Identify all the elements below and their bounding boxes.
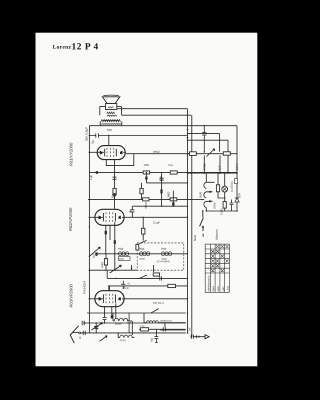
svg-text:0,1µF: 0,1µF — [153, 221, 161, 225]
svg-text:PHS43Z4: PHS43Z4 — [82, 281, 86, 294]
wire lamp leads — [218, 173, 225, 201]
wire grid2 rail y199 — [88, 198, 204, 200]
switch netz terminal circle — [202, 226, 204, 228]
trimmer arrow tube3 a — [91, 323, 102, 330]
terminal box right of lamp — [235, 179, 238, 184]
trimmer arrow 1 — [110, 265, 122, 273]
choke UrW winding — [204, 182, 206, 207]
wire rail y329 — [139, 328, 186, 330]
capacitor blob above tube2 — [113, 193, 115, 196]
wire mid rail y172 — [89, 171, 237, 173]
wire rail y206 — [132, 205, 187, 207]
wire tube Ro2 left lead — [89, 216, 103, 218]
svg-text:8µ: 8µ — [111, 194, 115, 198]
wire tube Ro3 left lead — [89, 298, 103, 300]
svg-text:1MΩ: 1MΩ — [144, 164, 150, 167]
wire x173 stub — [172, 199, 174, 206]
capacitor x96 bars — [94, 326, 98, 328]
svg-text:110Ω: 110Ω — [219, 208, 223, 215]
coil 0000 on rail — [146, 321, 158, 323]
resistor bottom a — [141, 328, 149, 331]
netz junction dot — [202, 210, 204, 212]
wire tube Ro2 pins — [106, 222, 115, 270]
svg-text:117V: 117V — [235, 163, 239, 170]
tube Ro3 cathode — [102, 294, 104, 302]
svg-text:0,1µ: 0,1µ — [140, 325, 145, 328]
switch band — [140, 275, 151, 278]
wire IF secondary stubs — [132, 265, 154, 272]
tube Ro1 electrode blobs — [100, 151, 101, 154]
speaker cone flange — [103, 94, 118, 97]
tube Ro3 electrode blobs — [99, 297, 100, 300]
capacitor 1uF blob on rail — [96, 171, 98, 174]
speaker bracket right — [117, 106, 122, 115]
svg-text:A5-0: A5-0 — [122, 286, 129, 290]
svg-text:4µF: 4µF — [218, 165, 222, 170]
svg-text:0,1µ: 0,1µ — [168, 164, 174, 167]
capacitor pin3 bars — [103, 317, 107, 319]
wire rail y330 — [160, 329, 186, 331]
capacitor blob osc — [95, 252, 97, 255]
svg-text:1µF: 1µF — [89, 175, 93, 180]
resistor lamp series — [216, 185, 219, 192]
resistor 50k below tube1 — [113, 188, 116, 195]
table X marks — [211, 245, 229, 272]
capacitor blob pin3 — [111, 315, 113, 318]
svg-text:PH YO-3: PH YO-3 — [153, 302, 164, 305]
tube Ro1 top stub — [108, 136, 110, 146]
wire heater vertical A — [187, 109, 189, 333]
wire tube Ro3 pins — [105, 303, 116, 323]
resistor 110 ohm — [223, 202, 226, 209]
svg-text:Abgl.: Abgl. — [118, 247, 124, 250]
capacitor blob pin a — [105, 231, 107, 234]
resistor 50k on y172 — [170, 171, 177, 174]
wire mid1 leads — [141, 183, 143, 200]
svg-text:1nF: 1nF — [188, 327, 191, 332]
svg-text:Spar.: Spar. — [212, 285, 215, 291]
wire speaker top rail — [117, 108, 188, 110]
wire rail y183 — [146, 182, 187, 184]
tube Ro1 VY2000 envelope — [97, 146, 125, 160]
tap arrow 2 — [209, 200, 212, 202]
transformer secondary zigzag — [101, 123, 121, 125]
switch on IF box top — [139, 240, 146, 243]
resistor psu row a — [190, 152, 197, 156]
table columns — [210, 244, 224, 292]
wire transformer rail — [89, 125, 237, 127]
resistor on y199 b — [170, 198, 177, 201]
wire transformer to rail — [100, 122, 122, 126]
IF dashed box — [137, 243, 184, 270]
table frame — [205, 244, 229, 292]
svg-text:1µF: 1µF — [92, 253, 95, 258]
svg-text:Wellensch.: Wellensch. — [160, 320, 172, 323]
antenna chevron — [70, 326, 78, 343]
wire netz leads — [202, 211, 204, 237]
speaker bracket left — [100, 106, 106, 115]
wire kurz leads — [118, 333, 134, 338]
svg-text:Mittel: Mittel — [115, 323, 122, 326]
resistor below IF b — [168, 284, 176, 287]
capacitor blob x146 — [145, 177, 147, 180]
page — [36, 33, 258, 367]
tap arrow 1 — [209, 191, 212, 193]
wire tube Ro2 top lead — [114, 193, 116, 209]
wire y270 rail — [89, 269, 137, 271]
svg-text:UrW: UrW — [199, 192, 203, 198]
resistor netz drop — [142, 228, 145, 234]
capacitor bars x161 — [160, 178, 164, 180]
svg-text:5000: 5000 — [161, 258, 167, 261]
speaker coil marks in frame — [108, 107, 113, 109]
rheostat psu slash — [207, 149, 215, 157]
wire rail y323 — [83, 322, 186, 324]
choke taps — [206, 182, 237, 211]
wire psu drops — [204, 155, 228, 173]
svg-text:WW2: WW2 — [153, 150, 160, 154]
svg-text:220V: 220V — [212, 202, 216, 209]
tube Ro3 grid dashes — [106, 294, 113, 304]
capacitor Obl 0,5uF — [89, 133, 187, 138]
wire antenna stub — [73, 332, 79, 334]
wire x161 stub — [161, 199, 163, 206]
capacitor on y278 rail — [160, 276, 162, 280]
resistor IF edge — [136, 244, 139, 250]
resistor below IF — [153, 273, 159, 276]
switch wave — [151, 309, 159, 313]
wire y278 drop — [106, 270, 108, 278]
earth arrow — [193, 335, 209, 339]
svg-text:0,5µ: 0,5µ — [160, 175, 163, 181]
capacitor wellen — [127, 313, 131, 333]
capacitor left rail y323 — [82, 321, 86, 325]
coil Mittel — [114, 318, 128, 321]
wire rail y313 — [87, 312, 186, 314]
svg-text:5000: 5000 — [118, 258, 124, 261]
svg-text:Rö1/VY2000: Rö1/VY2000 — [69, 142, 74, 166]
labels rotated — [68, 127, 241, 343]
svg-text:0,1/7014: 0,1/7014 — [230, 181, 234, 192]
wire psu line y140 — [188, 140, 229, 152]
wire bottom psu — [225, 202, 237, 211]
svg-text:Lorenz: Lorenz — [53, 45, 72, 51]
tube Ro1 grid dashes — [107, 148, 114, 157]
wire netz drop leads — [142, 217, 144, 240]
svg-text:5000: 5000 — [139, 258, 145, 261]
svg-text:50kΩ: 50kΩ — [101, 262, 104, 268]
trimmer arrow osc — [89, 247, 100, 257]
resistor 1M on y172 — [143, 171, 149, 174]
IF coil pair 1 — [119, 252, 129, 256]
resistor psu row b — [223, 152, 230, 155]
svg-text:Allstrom: Allstrom — [215, 229, 219, 240]
wire tube Ro1 pin leads — [114, 160, 116, 200]
IF coil pair 2 — [140, 252, 150, 256]
wire y278 rail — [107, 277, 187, 279]
capacitor psu small — [230, 200, 234, 212]
svg-text:Abgl.: Abgl. — [161, 248, 167, 251]
wire tube Ro3 right lead — [122, 298, 188, 300]
coil1 core box — [118, 257, 130, 261]
svg-text:50µ: 50µ — [150, 337, 153, 342]
wire mittel leads — [113, 313, 132, 335]
svg-text:Obl. 0,5µF: Obl. 0,5µF — [85, 127, 89, 141]
capacitor earth — [191, 335, 193, 339]
table rows — [205, 249, 229, 273]
speaker magnet coil bumps — [107, 115, 116, 116]
svg-text:50kΩ: 50kΩ — [145, 202, 148, 208]
wire choke top drop — [205, 173, 207, 182]
diode rectifier — [235, 198, 239, 202]
capacitor bottom a — [163, 327, 165, 331]
transformer TrW primary zigzag — [101, 120, 121, 122]
wire heater vertical B — [191, 115, 193, 337]
tube Ro2 envelope — [95, 209, 124, 225]
antenna terminal circle — [79, 332, 81, 334]
wire psu mid rail y173 — [188, 172, 238, 174]
capacitor blob x173 — [172, 202, 174, 205]
capacitor blob pin b — [114, 240, 116, 244]
lamp X — [223, 187, 227, 191]
tube Ro2 electrode blobs — [99, 216, 100, 219]
tube Ro1 anode — [115, 149, 117, 157]
capacitor blob x161 low — [160, 189, 162, 193]
wire right vertical — [236, 126, 238, 198]
lamp circle — [222, 186, 228, 192]
capacitor near tube3 — [121, 281, 125, 289]
wire x96 drop — [95, 323, 97, 333]
speaker frame — [106, 103, 117, 109]
trimmer arrow tube3 b — [100, 336, 107, 341]
wire left rail — [88, 126, 90, 333]
wire osc drops — [105, 254, 107, 270]
tube Ro1 cathode bracket — [106, 154, 134, 165]
tube Ro1 cathode — [104, 149, 106, 157]
svg-text:4µ: 4µ — [129, 209, 132, 212]
svg-text:Rö3/VP2000: Rö3/VP2000 — [68, 284, 73, 308]
transformer top bar — [103, 119, 119, 121]
switch netz slash — [200, 218, 204, 227]
svg-text:0,3MΩ: 0,3MΩ — [167, 192, 171, 200]
svg-text:47kΩ: 47kΩ — [203, 163, 207, 171]
capacitor 4uF psu — [202, 126, 206, 152]
tube Ro3 envelope — [95, 291, 124, 307]
resistor osc — [104, 259, 107, 265]
svg-text:Netz: Netz — [193, 234, 197, 241]
speaker voice coil zigzag — [107, 112, 115, 114]
capacitor cathode bars — [113, 177, 117, 179]
svg-text:Abgl.: Abgl. — [139, 247, 145, 250]
svg-text:20V: 20V — [237, 193, 241, 198]
voltage table — [205, 244, 229, 292]
wire A5 box top — [110, 286, 188, 291]
wire tube Ro1 anode lead — [123, 151, 126, 153]
capacitor tube2 top 2u — [130, 206, 134, 217]
junction dots — [89, 125, 238, 338]
speaker cone — [102, 97, 120, 104]
tube Ro3 top stub — [108, 286, 110, 291]
tube Ro2 grid dashes — [106, 212, 113, 222]
wire speaker bracket rail — [122, 114, 192, 116]
wire drop x161 — [161, 172, 163, 199]
tube Ro2 cathode — [102, 213, 104, 221]
wire bottom rail — [81, 332, 186, 334]
wire mid3 stub — [172, 191, 174, 200]
IF coil pair 3 — [162, 252, 172, 256]
wire psu line y133 — [188, 134, 220, 152]
wire anode rail R5 — [126, 153, 237, 155]
wire tube Ro2 right lead — [122, 216, 188, 218]
svg-text:Lang: Lang — [227, 285, 230, 291]
table header text — [207, 275, 229, 291]
tube Ro2 anode — [114, 213, 116, 221]
svg-text:Kurz: Kurz — [120, 339, 126, 342]
svg-text:Rö2/VP2000: Rö2/VP2000 — [68, 207, 73, 231]
capacitor bottom b — [154, 329, 158, 342]
coil Kurz — [120, 335, 132, 337]
capacitor antenna — [83, 331, 87, 335]
svg-text:Netz: Netz — [222, 286, 225, 292]
wire tube Ro1 left lead — [89, 151, 104, 153]
svg-text:12 P 4: 12 P 4 — [71, 42, 98, 52]
svg-text:Wellenbereich: Wellenbereich — [207, 275, 210, 291]
wire drop x146 — [145, 172, 147, 183]
svg-text:5µ: 5µ — [91, 140, 95, 144]
tube Ro3 anode — [114, 294, 116, 302]
resistor vert mid1 — [140, 188, 143, 193]
resistor on y199 a — [143, 198, 149, 201]
wire osc rail y253 — [95, 253, 188, 255]
wire wellen links — [144, 313, 186, 330]
svg-text:Allstr.: Allstr. — [217, 285, 220, 291]
